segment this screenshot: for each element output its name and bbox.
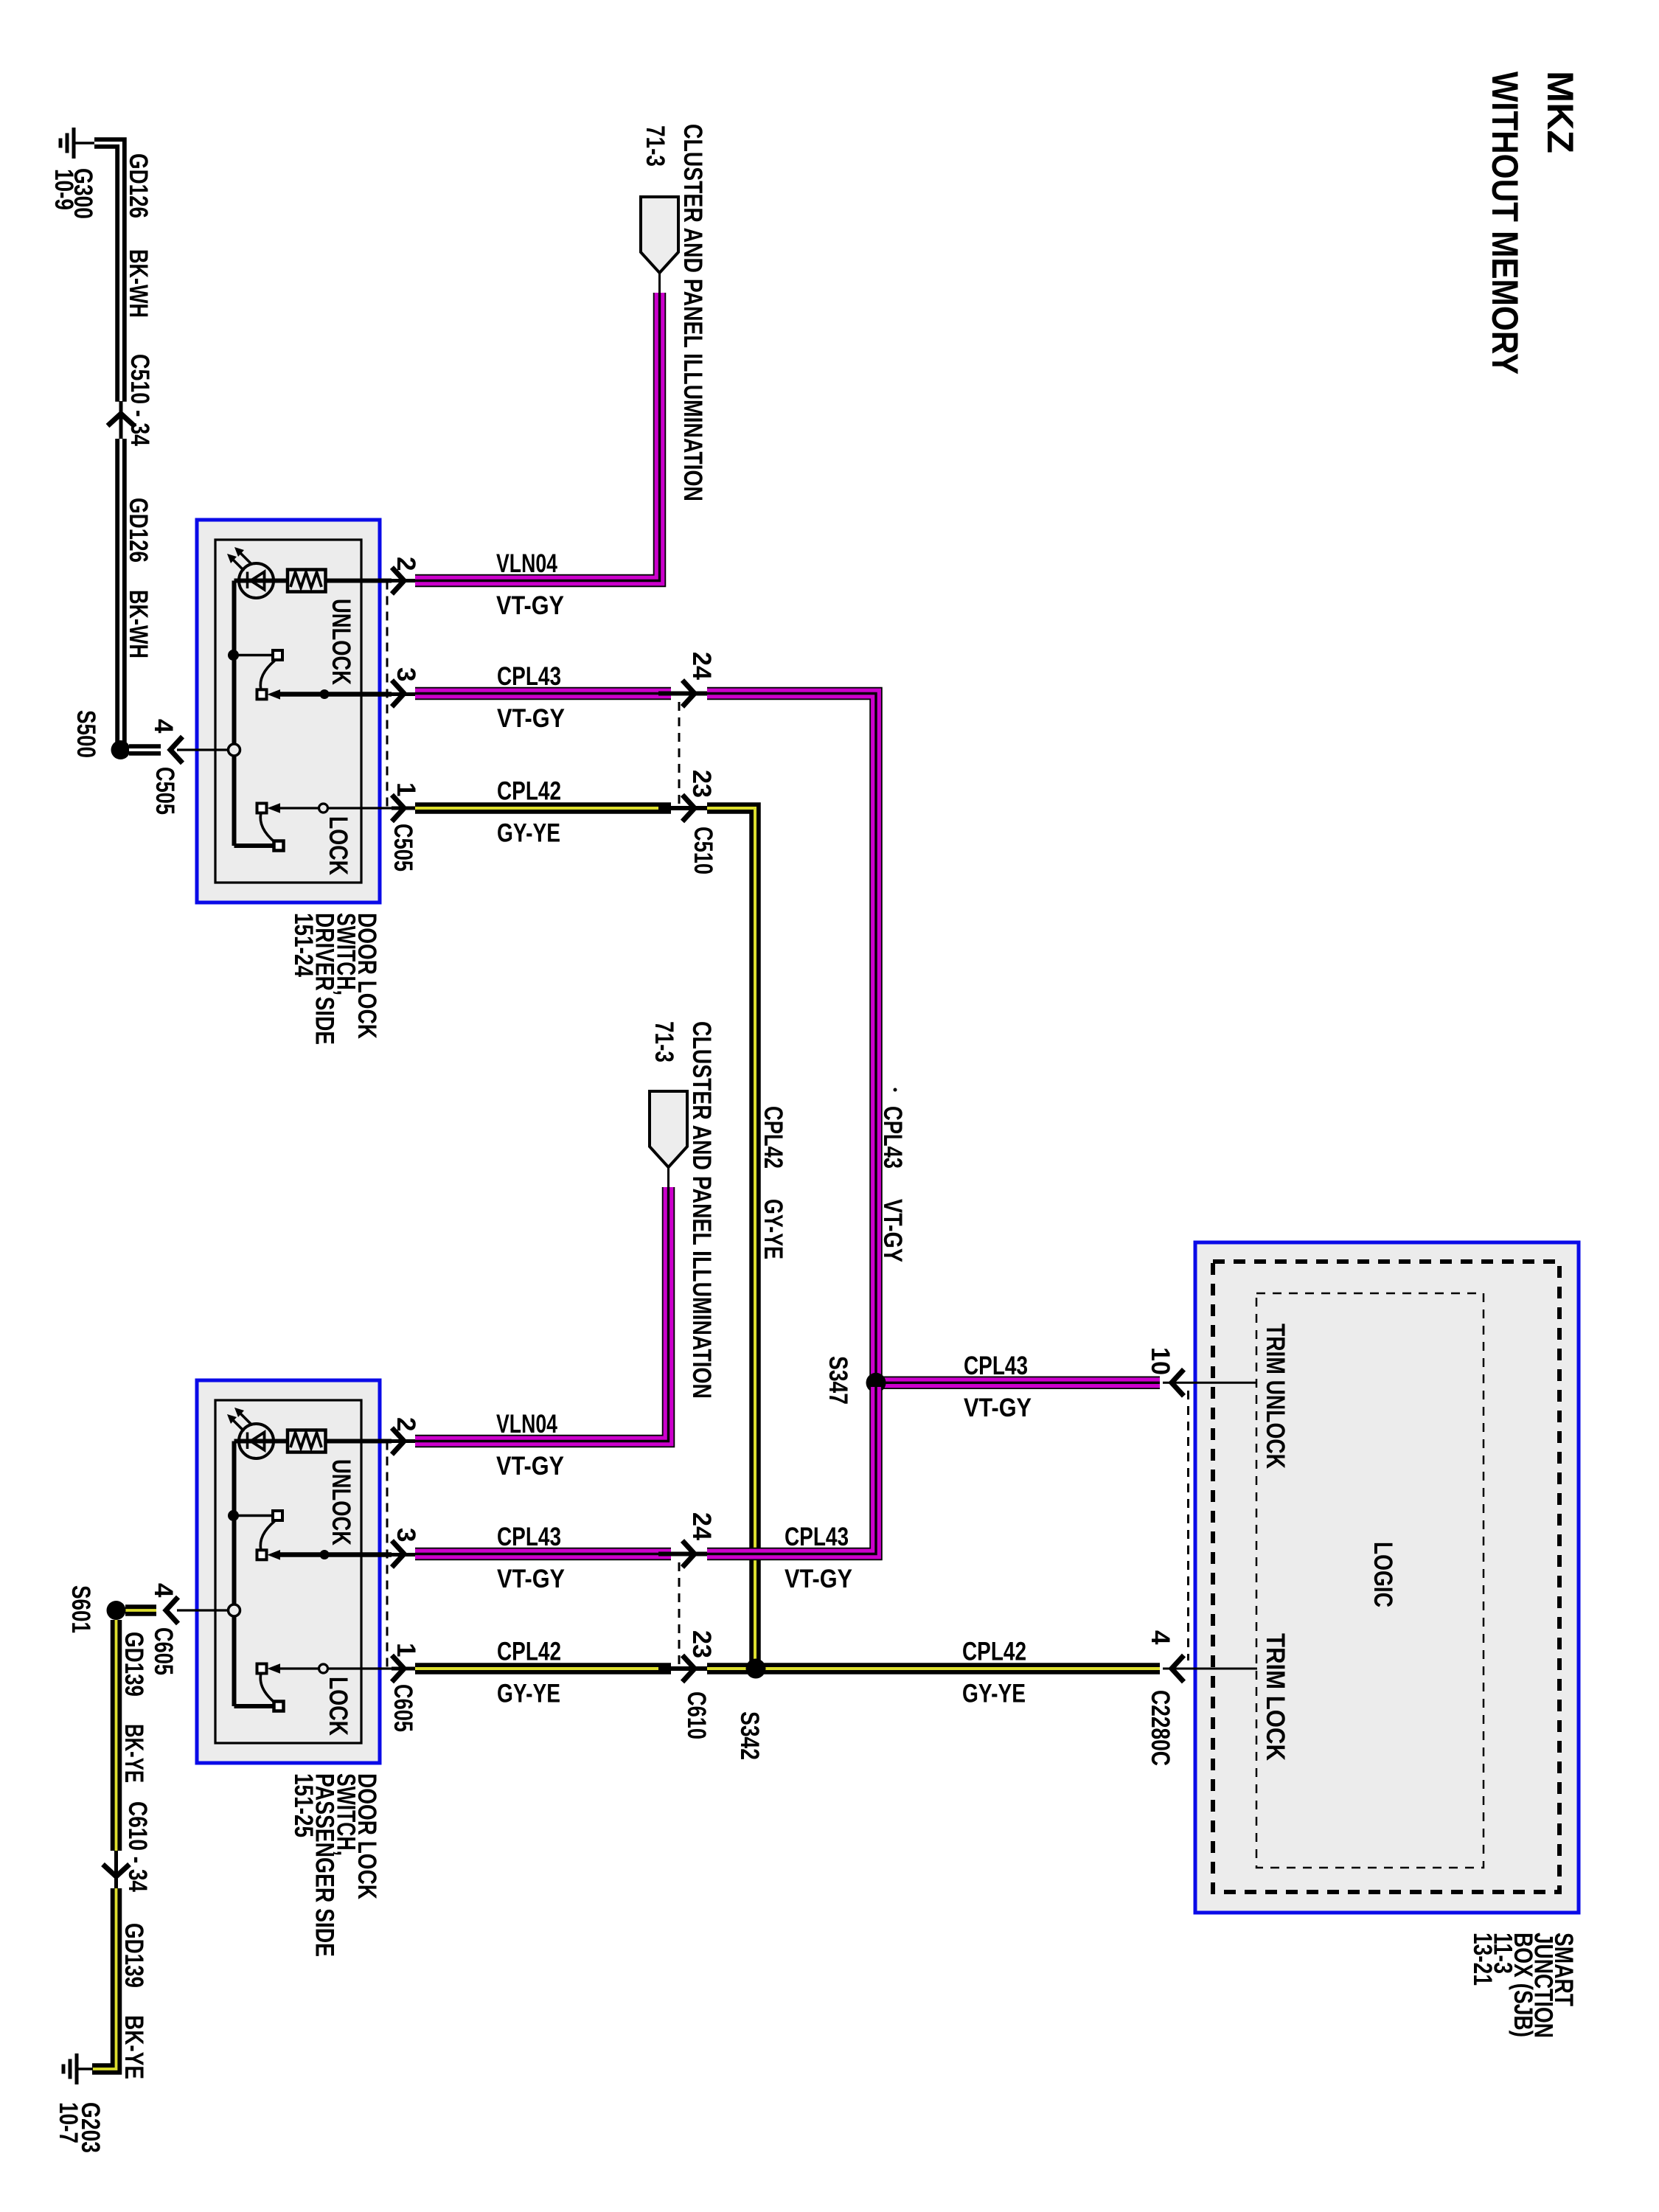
svg-text:S601: S601 [66,1585,95,1633]
svg-text:2: 2 [392,1417,420,1431]
svg-text:BK-YE: BK-YE [119,1724,148,1783]
svg-text:71-3: 71-3 [641,125,669,167]
dashed connector C605 [386,1441,389,1669]
wire CPL42 GY-YE passenger pin1 to C610 [415,1663,671,1674]
svg-text:CPL43: CPL43 [497,1523,561,1551]
pin arrows [392,568,405,822]
wire CPL43 VT-GY C610 to S347 riser [707,1387,876,1554]
svg-text:S342: S342 [735,1711,764,1760]
wire CPL42 GY-YE C510 to S342 [707,808,755,1663]
svg-text:23: 23 [687,770,716,798]
svg-text:10-9: 10-9 [49,169,78,210]
svg-text:CPL42: CPL42 [962,1638,1026,1666]
dashed connector C2280C [1187,1391,1189,1660]
wire S601 stub BK-YE [125,1604,156,1616]
svg-text:LOCK: LOCK [324,816,352,875]
svg-text:BK-YE: BK-YE [119,2015,148,2079]
wire CPL43 VT-GY S347 to SJB [876,1377,1160,1390]
wire lamp to resistor to pin 2 [234,1439,416,1444]
wire pin 4 into SJB logic [1163,1668,1257,1670]
wire GD126 BK-WH lower segment [115,439,127,744]
inline connector arrow 24 passenger [658,1552,707,1557]
door lock switch outer box (blue) [197,520,380,902]
connector arrow C510-34 [119,401,123,439]
svg-text:1: 1 [392,782,420,796]
wire GD126 BK-WH upper segment [94,143,121,402]
cluster connector pentagon passenger [667,1167,669,1188]
wire ground stem G203 [77,2067,93,2070]
junction dot pin 3 [320,689,330,699]
splice S601 [107,1601,126,1620]
arrow SJB pin 10 [1172,1369,1184,1396]
unlock contact [234,1511,283,1560]
svg-text:C510: C510 [689,827,717,874]
svg-text:C510 - 34: C510 - 34 [125,354,154,446]
svg-text:UNLOCK: UNLOCK [327,1459,355,1545]
svg-text:VT-GY: VT-GY [496,1452,564,1481]
splice S500 [111,740,131,759]
wire unlock contact to pin 3 [279,1552,415,1557]
svg-text:C605: C605 [389,1684,417,1732]
SJB logic dashed box [1256,1293,1484,1868]
wire ground stem G300 [74,142,94,145]
svg-text:VT-GY: VT-GY [964,1394,1032,1422]
dashed connector C505 [386,581,389,809]
illumination lamp [227,547,274,598]
svg-text:BK-WH: BK-WH [124,249,153,318]
svg-text:VT-GY: VT-GY [496,591,564,620]
svg-text:WITHOUT MEMORY: WITHOUT MEMORY [1484,72,1526,375]
resistor [288,570,326,592]
svg-text:UNLOCK: UNLOCK [327,599,355,685]
svg-text:MKZ: MKZ [1540,71,1581,153]
svg-text:S347: S347 [824,1356,852,1405]
illumination lamp [227,1408,274,1458]
door lock switch inner box [215,1400,361,1743]
junction dot pin 3 [320,1550,330,1559]
smart junction box outer (blue) [1195,1242,1579,1913]
wire GD139 BK-YE upper segment [111,1620,122,1851]
svg-text:VT-GY: VT-GY [497,1565,565,1593]
inline connector arrow 23 passenger [658,1666,707,1671]
svg-text:CPL42: CPL42 [497,1638,561,1666]
svg-text:TRIM LOCK: TRIM LOCK [1261,1633,1290,1761]
wire VLN04 VT-GY passenger [415,1187,669,1441]
SJB bold dashed border [1213,1262,1559,1892]
svg-text:CLUSTER AND PANEL ILLUMINATION: CLUSTER AND PANEL ILLUMINATION [687,1021,716,1399]
arrow SJB pin 4 [1172,1655,1184,1682]
svg-text:VT-GY: VT-GY [785,1565,852,1593]
svg-text:C505: C505 [389,824,417,872]
cluster connector pentagon driver [658,273,661,293]
wire unlock contact to pin 3 [279,692,415,696]
svg-text:C505: C505 [150,767,179,815]
svg-text:GD126: GD126 [124,153,153,218]
svg-text:C2280C: C2280C [1146,1690,1175,1766]
svg-text:CPL42: CPL42 [497,777,561,806]
svg-text:23: 23 [687,1630,716,1658]
svg-text:151-24: 151-24 [289,913,318,977]
wire VLN04 VT-GY driver [415,293,660,581]
svg-text:4: 4 [149,719,178,734]
junction dot [228,1510,239,1521]
door lock switch outer box (blue) [197,1380,380,1763]
lock contact [234,1663,416,1711]
svg-text:3: 3 [392,667,420,681]
svg-text:CPL43: CPL43 [785,1523,849,1551]
connector arrow C610-34 [114,1851,118,1889]
svg-text:CLUSTER AND PANEL ILLUMINATION: CLUSTER AND PANEL ILLUMINATION [678,124,707,501]
arrow pin 4 passenger [166,1597,178,1624]
inline connector arrow 24 [658,692,707,696]
wire pin 4 into switch [177,1604,240,1616]
svg-text:TRIM UNLOCK: TRIM UNLOCK [1261,1324,1290,1469]
svg-text:GY-YE: GY-YE [497,819,560,848]
svg-text:C610: C610 [682,1691,711,1739]
artifact dot [894,1088,897,1092]
wire S500 stub BK-WH [129,744,161,756]
wire CPL43 VT-GY driver pin3 to C510 [415,687,671,700]
svg-text:4: 4 [149,1583,178,1598]
svg-text:VLN04: VLN04 [496,1410,557,1439]
svg-text:71-3: 71-3 [650,1021,678,1062]
wire pin 10 into SJB logic [1163,1382,1257,1384]
svg-text:CPL42: CPL42 [759,1106,787,1169]
svg-text:24: 24 [687,1512,716,1541]
switch common vertical wire [232,1441,237,1707]
svg-text:GY-YE: GY-YE [759,1199,787,1259]
wire pin 4 into switch [177,744,240,756]
svg-text:3: 3 [392,1528,420,1542]
splice S342 [746,1659,766,1679]
svg-text:BK-WH: BK-WH [124,590,153,658]
svg-text:1: 1 [392,1643,420,1657]
svg-text:GD139: GD139 [119,1923,148,1988]
lock contact [234,803,416,850]
svg-text:10: 10 [1146,1347,1175,1375]
svg-text:GD126: GD126 [124,498,153,563]
svg-text:VT-GY: VT-GY [878,1199,907,1262]
wire CPL42 GY-YE driver pin1 to C510 [415,802,671,814]
svg-text:CPL43: CPL43 [878,1106,907,1169]
ground G203 [63,2053,77,2084]
wire CPL42 GY-YE C610 to SJB [707,1663,1160,1674]
dashed connector C610 [678,1562,681,1669]
switch common vertical wire [232,581,237,846]
svg-text:VLN04: VLN04 [496,549,557,578]
svg-text:CPL43: CPL43 [964,1352,1028,1380]
svg-text:10-7: 10-7 [54,2102,83,2143]
svg-text:2: 2 [392,557,420,571]
dashed connector C510 [678,702,681,808]
svg-text:S500: S500 [72,710,100,758]
unlock contact [234,650,283,700]
splice S347 [866,1373,886,1393]
svg-text:4: 4 [1146,1630,1175,1645]
ground G300 [60,128,74,159]
svg-text:GY-YE: GY-YE [962,1680,1026,1708]
wire CPL43 VT-GY C510 to S347 [707,694,876,1379]
svg-text:151-25: 151-25 [289,1773,318,1837]
svg-text:CPL43: CPL43 [497,662,561,691]
inline connector arrow 23 [658,806,707,810]
wire lamp to resistor to pin 2 [234,579,416,583]
junction dot [228,650,239,661]
svg-text:GD139: GD139 [119,1632,148,1697]
arrow pin 4 driver [170,737,183,763]
wire CPL43 VT-GY passenger pin3 to C610 [415,1548,671,1561]
svg-text:C605: C605 [149,1627,178,1675]
door lock switch inner box [215,540,361,883]
svg-text:13-21: 13-21 [1468,1933,1497,1986]
pin arrows [392,1428,405,1683]
resistor [288,1430,326,1453]
wire GD139 BK-YE lower segment [92,1888,116,2069]
svg-text:GY-YE: GY-YE [497,1680,560,1708]
svg-text:LOCK: LOCK [324,1677,352,1736]
svg-text:VT-GY: VT-GY [497,704,565,733]
svg-text:LOGIC: LOGIC [1368,1542,1397,1607]
svg-text:C610 - 34: C610 - 34 [123,1801,152,1892]
svg-text:24: 24 [687,652,716,681]
